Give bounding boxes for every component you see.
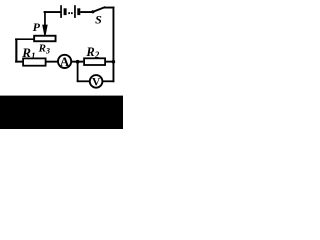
junction node (R2-right wire): [112, 60, 116, 64]
wire ammeter to R2: [72, 61, 84, 63]
switch S contact dot: [91, 10, 94, 13]
svg-text:P: P: [33, 20, 41, 34]
svg-text:A: A: [60, 54, 70, 69]
wire voltmeter to right vertical: [103, 80, 115, 82]
voltmeter V: [90, 75, 103, 89]
wire R2 to right vertical: [106, 61, 114, 63]
rheostat R3 box: [34, 36, 55, 42]
battery cell 1 short plate: [64, 8, 67, 15]
ammeter A: [58, 54, 71, 69]
wire left vertical: [15, 38, 17, 62]
resistor R1 box: [23, 58, 45, 65]
wire voltmeter branch horizontal: [77, 80, 90, 82]
wire right vertical: [113, 7, 115, 83]
black bar bottom: [0, 96, 123, 129]
wire R1 to ammeter: [47, 61, 58, 63]
junction node (A-R2): [76, 60, 80, 64]
svg-text:V: V: [92, 77, 101, 89]
wire top right: [104, 7, 114, 9]
svg-text:S: S: [95, 12, 102, 26]
switch S blade: [94, 7, 105, 11]
wire rheostat input (left): [15, 38, 33, 40]
battery dots: [68, 12, 72, 14]
rheostat slider arrow P: [42, 11, 48, 35]
battery cell 1 long plate: [60, 5, 62, 18]
battery cell 2 short plate: [77, 8, 80, 15]
wire to R1: [15, 61, 22, 63]
wire voltmeter branch vertical: [77, 62, 79, 82]
wire top (wiper to battery): [44, 11, 61, 13]
battery cell 2 long plate: [74, 5, 76, 18]
wire battery to switch: [80, 11, 91, 13]
resistor R2 box: [84, 58, 105, 65]
